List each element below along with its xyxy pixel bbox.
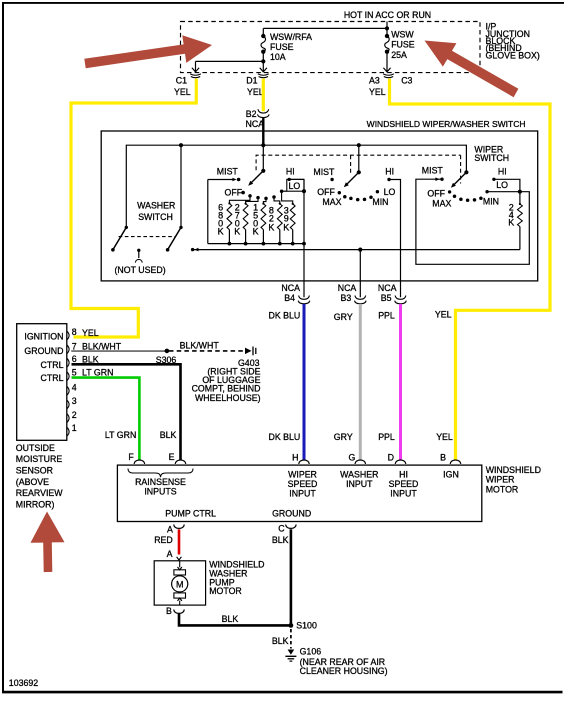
svg-text:NCA: NCA [338,283,357,293]
svg-text:MIRROR): MIRROR) [16,499,55,509]
ground G403 [245,348,252,355]
svg-text:K: K [234,227,240,237]
svg-text:NCA: NCA [246,119,265,129]
svg-text:K: K [268,222,274,232]
svg-text:PPL: PPL [378,311,395,321]
svg-text:WINDSHIELD: WINDSHIELD [486,465,541,475]
svg-text:BLK/WHT: BLK/WHT [180,340,220,350]
svg-text:F: F [128,452,134,462]
connector B5 [395,296,406,300]
svg-text:SWITCH: SWITCH [474,153,509,163]
windshield washer pump motor box [154,561,205,605]
svg-text:CTRL: CTRL [41,373,64,383]
fuse WSW/RFA 10A [262,28,264,36]
svg-text:LO: LO [496,180,508,190]
svg-text:RED: RED [154,535,173,545]
svg-text:PUMP CTRL: PUMP CTRL [165,509,216,519]
svg-text:HI: HI [385,166,394,176]
svg-text:MOTOR: MOTOR [209,586,242,596]
wire YEL from A3 to wiper motor IGN [390,79,551,461]
svg-text:OFF: OFF [225,187,243,197]
svg-text:B2: B2 [246,109,257,119]
svg-text:B4: B4 [284,293,295,303]
svg-text:6: 6 [72,354,77,364]
svg-text:M: M [176,579,184,589]
I/P junction block dashed box [181,22,481,73]
svg-text:YEL: YEL [436,432,453,442]
pin H [299,460,310,464]
svg-text:LT GRN: LT GRN [105,430,136,440]
svg-text:MIN: MIN [372,197,388,207]
connector B3 [355,296,366,300]
svg-text:8: 8 [72,327,77,337]
red callout arrow at WSW/RFA fuse [84,35,212,68]
outside moisture sensor box [17,324,67,441]
wire washer signal to B3 [359,250,361,298]
svg-text:C: C [278,524,285,534]
svg-text:25A: 25A [391,50,407,60]
wire GRY B3 to wiper motor G [359,304,362,460]
resistor 39K [290,204,295,230]
svg-text:MIST: MIST [217,167,239,177]
svg-text:IGNITION: IGNITION [24,332,63,342]
svg-text:LO: LO [289,181,301,191]
splice S306 [165,349,170,354]
svg-text:K: K [253,227,259,237]
svg-text:BLK/WHT: BLK/WHT [82,341,122,351]
svg-text:BLK: BLK [160,430,177,440]
svg-text:A3: A3 [369,76,380,86]
svg-text:4: 4 [72,383,77,393]
svg-text:YEL: YEL [435,310,452,320]
connector B4 [299,296,310,300]
resistor 150K [261,204,266,230]
windshield wiper motor box [117,465,481,521]
svg-text:(NOT USED): (NOT USED) [115,265,166,275]
pin G [355,460,366,464]
svg-text:SENSOR: SENSOR [16,466,53,476]
sensor pins 8-1 [67,331,69,340]
svg-text:K: K [283,222,289,232]
resistor 24K [519,192,521,204]
svg-text:YEL: YEL [82,328,99,338]
resistor 82K [277,204,282,230]
svg-text:INPUTS: INPUTS [144,486,176,496]
svg-text:WSW/RFA: WSW/RFA [270,32,312,42]
svg-text:MIST: MIST [313,167,335,177]
wire BLK pump to S100 [179,614,290,626]
svg-text:DK BLU: DK BLU [269,432,301,442]
pin D1 [258,74,269,75]
svg-text:A: A [167,525,173,535]
washer output line [194,249,520,251]
pin B [450,460,461,464]
svg-text:1: 1 [72,423,77,433]
wiper switch 3 arm [464,170,468,174]
svg-text:BLK: BLK [272,636,289,646]
svg-text:SWITCH: SWITCH [138,212,173,222]
wire BLK/WHT pin 7 to S306 [72,350,167,352]
svg-text:WASHER: WASHER [137,201,175,211]
svg-text:OFF: OFF [427,189,445,199]
svg-text:NCA: NCA [281,283,300,293]
svg-text:YEL: YEL [174,87,191,97]
wiper switch 2 arm [358,145,360,172]
resistor 680K [227,203,232,229]
wiper switch 2 delay arc [343,195,347,199]
pin F [134,460,145,464]
svg-text:2: 2 [72,410,77,420]
svg-text:C1: C1 [176,76,187,86]
wire LT GRN pin 5 to wiper motor F [72,378,140,461]
svg-text:WINDSHIELD WIPER/WASHER SWITCH: WINDSHIELD WIPER/WASHER SWITCH [367,119,526,129]
svg-text:WHEELHOUSE): WHEELHOUSE) [195,393,261,403]
svg-text:K: K [508,217,514,227]
svg-text:GRY: GRY [334,432,353,442]
wiper switch 3 delay arc [453,194,457,198]
svg-text:MAX: MAX [322,197,341,207]
svg-text:YEL: YEL [247,87,264,97]
svg-text:INPUT: INPUT [289,488,316,498]
svg-text:G106: G106 [300,647,322,657]
wiper switch 3 MIST contact loop [416,179,529,264]
svg-text:(ABOVE: (ABOVE [16,477,49,487]
pin C [286,525,297,529]
pin D [395,460,406,464]
wire BLK dashed to G106 [290,629,292,649]
wire PPL B5 to wiper motor D [399,304,402,460]
windshield wiper/washer switch box [101,131,538,281]
wire RED pump ctrl [178,529,181,554]
svg-text:H: H [292,452,298,462]
wire bus rail inside junction block [263,27,387,29]
svg-text:BLK: BLK [272,535,289,545]
svg-text:B3: B3 [341,293,352,303]
wire YEL from C1 to moisture sensor pin 8 [71,79,196,337]
svg-text:B: B [440,452,446,462]
svg-text:D: D [388,452,394,462]
switch feed line [126,145,466,227]
svg-text:MOTOR: MOTOR [486,485,519,495]
wiper switch 1 arm [261,169,265,173]
wire BLK/WHT dashed to G403 [169,350,245,352]
washer switch [180,145,182,227]
mechanical link dashed lines [256,155,461,183]
svg-text:CLEANER HOUSING): CLEANER HOUSING) [300,666,388,676]
svg-text:10A: 10A [270,52,286,62]
wire NCA from B2 into switch [262,118,264,146]
wiper switch 1 rotary contacts [248,194,252,198]
svg-text:MAX: MAX [432,198,451,208]
connector B2 [258,109,269,113]
svg-text:HOT IN ACC OR RUN: HOT IN ACC OR RUN [344,10,431,20]
svg-text:WSW: WSW [391,29,414,39]
svg-text:3: 3 [72,396,77,406]
pin C1 [190,74,201,75]
svg-text:NCA: NCA [378,283,397,293]
pin A [174,525,185,529]
svg-text:GRY: GRY [334,312,353,322]
wiper switch 1 contact-to-resistor links [229,191,292,204]
svg-text:CTRL: CTRL [41,360,64,370]
svg-text:HI: HI [498,166,507,176]
svg-text:GROUND: GROUND [272,509,311,519]
svg-text:S100: S100 [296,621,317,631]
wire BLK ground from C [290,529,293,625]
pin A3 / C3 [383,74,394,75]
svg-text:G: G [348,452,355,462]
svg-text:DK BLU: DK BLU [269,311,301,321]
svg-text:B: B [166,606,172,616]
rainsense brace [128,469,193,478]
svg-text:WIPER: WIPER [486,475,515,485]
wire DK BLU B4 to wiper motor H [303,304,306,460]
washer switch unused terminal [137,249,140,252]
splice S100 [289,623,294,628]
svg-text:FUSE: FUSE [270,42,294,52]
svg-text:LT GRN: LT GRN [82,368,113,378]
wiper switch 1 output to B4 [303,179,305,297]
svg-text:C3: C3 [401,76,412,86]
svg-text:YEL: YEL [369,87,386,97]
wiper switch 1 left leg [207,180,209,244]
svg-text:LO: LO [384,187,396,197]
svg-text:K: K [218,227,224,237]
svg-text:A: A [167,549,173,559]
pin E [175,460,186,464]
svg-text:MIST: MIST [422,165,444,175]
svg-text:HI: HI [286,166,295,176]
svg-text:INPUT: INPUT [346,479,373,489]
wire C1 feed from fuse [196,60,264,62]
wiper switch 1 LO contact box [287,179,304,191]
fuse WSW 25A [386,28,388,36]
svg-text:OUTSIDE: OUTSIDE [16,443,55,453]
red callout arrow at WSW fuse [425,41,519,98]
page border frame [2,2,4,693]
washer pump motor symbol [179,561,181,568]
resistor 270K [243,204,248,230]
svg-text:103692: 103692 [9,678,38,688]
svg-text:BLK: BLK [222,614,239,624]
wire BLK pin 6 to wiper motor E [72,364,181,460]
svg-text:IGN: IGN [443,470,459,480]
svg-text:PPL: PPL [378,432,395,442]
red callout arrow at moisture sensor [31,512,65,573]
svg-text:E: E [169,452,175,462]
wire YEL from D1 to connector B2 [262,79,265,112]
svg-text:OFF: OFF [317,187,335,197]
svg-text:5: 5 [72,368,77,378]
svg-text:GLOVE BOX): GLOVE BOX) [486,50,540,60]
svg-text:REARVIEW: REARVIEW [16,488,63,498]
svg-text:GROUND: GROUND [24,346,63,356]
svg-text:MIN: MIN [483,197,499,207]
svg-text:MOISTURE: MOISTURE [16,454,63,464]
svg-text:D1: D1 [246,76,257,86]
svg-text:B5: B5 [381,293,392,303]
svg-text:FUSE: FUSE [391,40,415,50]
ground G106 [288,650,295,655]
svg-text:INPUT: INPUT [390,488,417,498]
svg-text:BLK: BLK [82,354,99,364]
wiper switch 1 resistor rail [208,243,304,245]
